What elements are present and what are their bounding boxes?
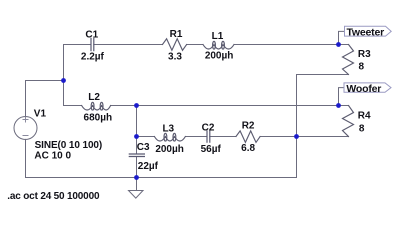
svg-text:8: 8 — [359, 124, 365, 135]
svg-text:R2: R2 — [242, 121, 255, 132]
svg-text:V1: V1 — [34, 108, 47, 119]
svg-text:Woofer: Woofer — [346, 83, 381, 95]
svg-text:R3: R3 — [358, 49, 371, 60]
svg-text:L2: L2 — [88, 92, 100, 103]
svg-text:8: 8 — [359, 62, 365, 73]
svg-text:AC 10 0: AC 10 0 — [34, 150, 71, 161]
svg-text:SINE(0 10 100): SINE(0 10 100) — [35, 140, 103, 151]
svg-text:C1: C1 — [85, 29, 98, 40]
svg-text:L3: L3 — [162, 124, 174, 135]
svg-text:3.3: 3.3 — [168, 52, 182, 63]
svg-text:C2: C2 — [202, 122, 215, 133]
svg-text:.ac oct 24 50 100000: .ac oct 24 50 100000 — [7, 191, 100, 202]
svg-text:2.2µf: 2.2µf — [81, 52, 105, 63]
svg-text:Tweeter: Tweeter — [347, 27, 385, 39]
svg-text:R4: R4 — [358, 111, 371, 122]
svg-text:56µf: 56µf — [201, 144, 222, 155]
svg-text:L1: L1 — [212, 31, 224, 42]
svg-text:C3: C3 — [137, 142, 150, 153]
svg-text:680µh: 680µh — [84, 113, 113, 124]
svg-text:6.8: 6.8 — [241, 143, 255, 154]
svg-text:200µh: 200µh — [205, 51, 234, 62]
svg-text:R1: R1 — [170, 29, 183, 40]
svg-text:200µh: 200µh — [155, 144, 184, 155]
svg-text:22µf: 22µf — [138, 161, 159, 172]
